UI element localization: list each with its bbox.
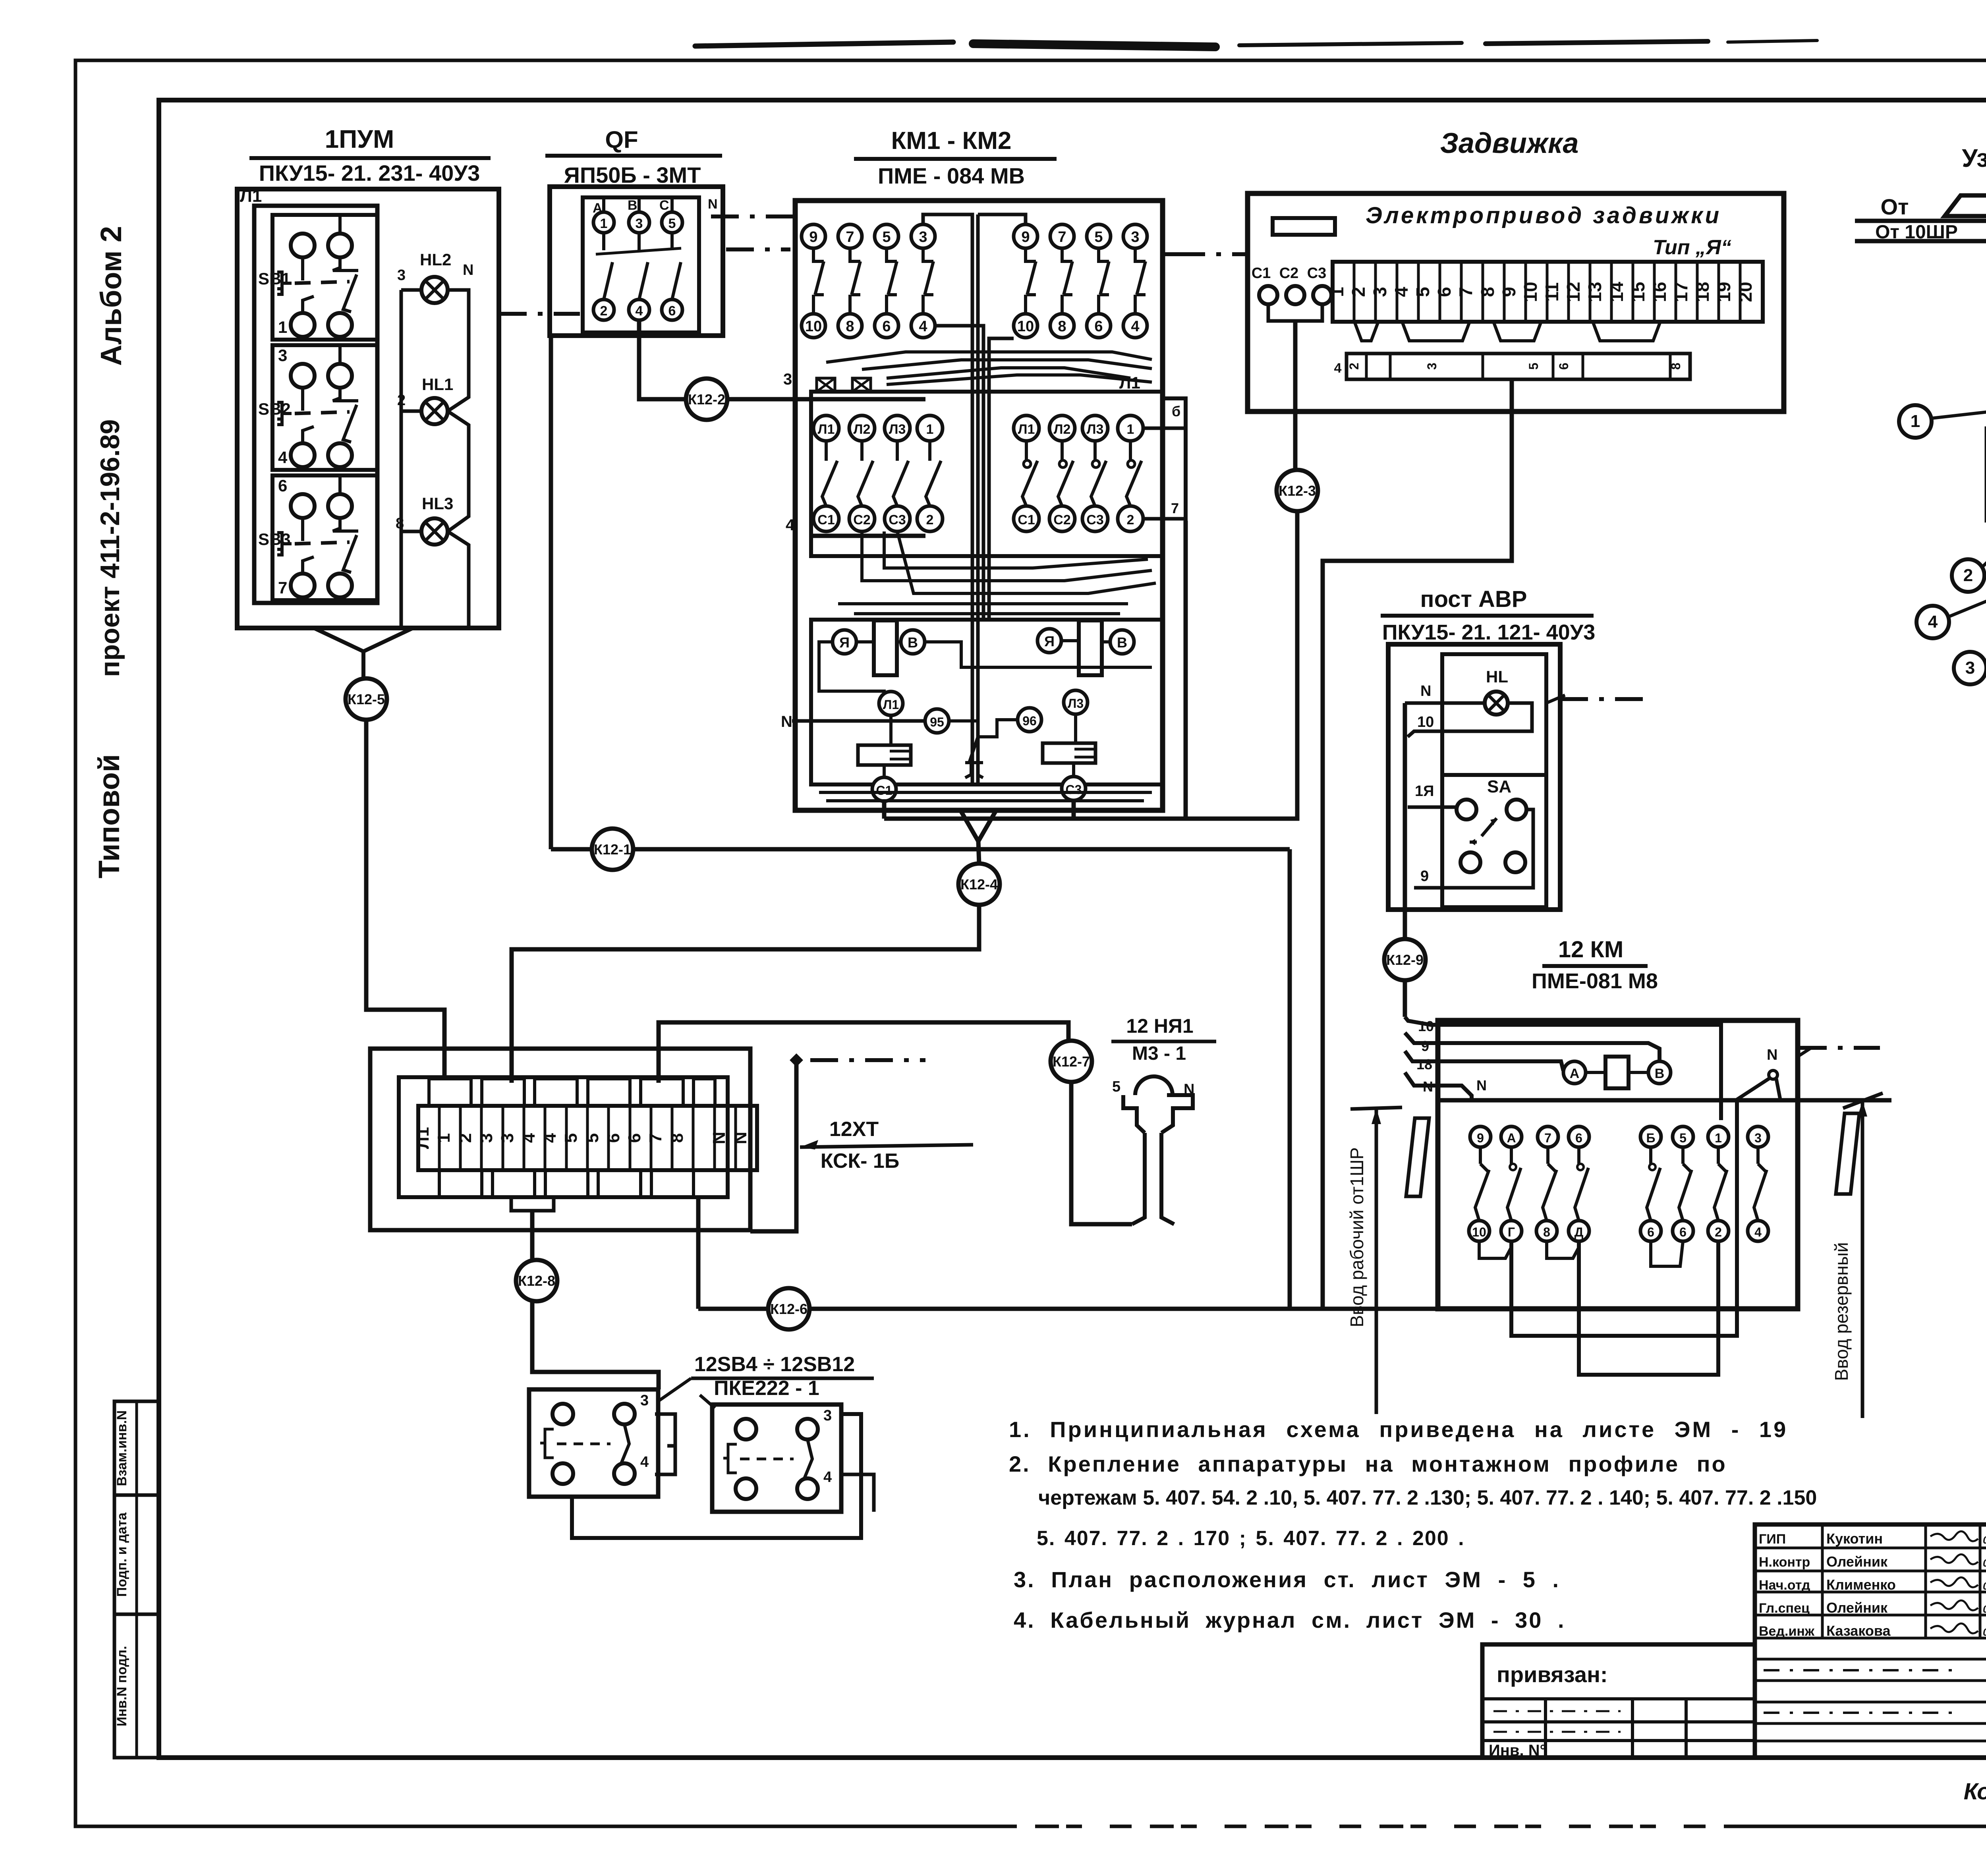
wires around PKE blocks [532,1301,659,1389]
pushbutton block 12SB4-12SB12 right [712,1405,841,1512]
svg-text:2: 2 [456,1133,475,1143]
svg-text:Альбом 2: Альбом 2 [95,226,128,366]
bottom border scan fade [1017,1824,1732,1829]
svg-text:6: 6 [1434,287,1455,297]
svg-text:ПКЕ222 - 1: ПКЕ222 - 1 [714,1377,819,1400]
cable marker K12-4 [958,864,1000,905]
12KM contact 1-2 [1708,1126,1729,1241]
KM1 aux contact 3-4 [911,224,935,338]
svg-text:10: 10 [1017,318,1034,335]
svg-text:9: 9 [809,229,817,245]
svg-text:1: 1 [1127,422,1134,437]
wire K12-4 down then left into strip [512,905,979,1083]
12XT strip cells [413,1106,757,1170]
small window [1273,218,1335,235]
svg-text:привязан:: привязан: [1497,1662,1608,1687]
svg-text:N: N [708,197,718,212]
svg-text:4: 4 [1391,287,1412,297]
svg-text:От: От [1881,194,1909,219]
svg-text:12: 12 [1563,282,1584,302]
svg-text:Олейник: Олейник [1826,1600,1888,1616]
svg-text:КСК- 1Б: КСК- 1Б [821,1150,899,1173]
svg-text:Я: Я [839,634,850,651]
svg-text:4: 4 [540,1133,560,1143]
svg-text:12SB4 ÷ 12SB12: 12SB4 ÷ 12SB12 [694,1353,855,1376]
AVR inner box [1442,654,1546,907]
coil KM1 [833,620,925,675]
svg-text:КМ1 - КМ2: КМ1 - КМ2 [891,127,1011,155]
SA arrows [1482,818,1497,836]
svg-text:3: 3 [919,229,927,245]
svg-text:4: 4 [1928,612,1938,632]
svg-text:2: 2 [1127,512,1134,527]
svg-text:08.89: 08.89 [1983,1580,1986,1592]
line Vvod rezervny [1861,1101,1864,1418]
svg-text:12ХТ: 12ХТ [829,1118,879,1141]
thermal element KM1 [858,745,911,765]
svg-text:В: В [1117,634,1127,651]
svg-text:18: 18 [1692,282,1713,302]
svg-text:Кукотин: Кукотин [1826,1530,1883,1547]
svg-text:б: б [1172,403,1180,419]
svg-text:Гл.спец: Гл.спец [1759,1601,1810,1616]
svg-text:8: 8 [1543,1225,1550,1239]
svg-text:А: А [1507,1131,1516,1145]
svg-text:7: 7 [1058,229,1066,245]
svg-text:4: 4 [786,516,795,534]
svg-text:3: 3 [1425,363,1439,370]
SA wiring [1408,806,1457,809]
12KM contact 5-6 [1673,1126,1693,1241]
svg-text:14: 14 [1606,282,1627,302]
svg-text:С1: С1 [876,783,893,798]
lamp supply rail [401,288,421,292]
svg-text:С1: С1 [1018,512,1035,527]
svg-text:Л1: Л1 [1018,422,1035,437]
svg-text:6: 6 [1557,363,1571,370]
thermal trip symbol [949,721,978,737]
lamp N rail [448,290,469,411]
wire column to motor cable [1184,521,1188,819]
svg-text:96: 96 [1022,714,1037,728]
svg-text:6: 6 [604,1133,623,1143]
terminal strip 1-20 [1327,262,1763,322]
N wire [792,719,925,723]
svg-text:6: 6 [278,476,287,495]
svg-text:9: 9 [1421,1038,1429,1054]
svg-text:HL1: HL1 [422,375,453,394]
dashdot from AVR right [1560,697,1652,701]
12KM contact 6-Д [1569,1126,1589,1241]
thermal element KM2 [1043,743,1095,763]
12KM contact А-Г [1501,1126,1522,1241]
svg-text:Тип „Я“: Тип „Я“ [1653,236,1731,259]
svg-text:Узел пусковой аппаратуры: Узел пусковой аппаратуры [1962,144,1986,172]
svg-text:С2: С2 [853,512,870,527]
V merge to K12-4 [960,810,996,841]
QF inner box [583,197,699,332]
svg-text:С1: С1 [1252,265,1271,282]
wire row 4 [811,534,925,538]
svg-text:2: 2 [1963,566,1973,585]
KM2 aux contact 5-6 [1087,224,1111,338]
cable mark parallelogram 2 [1836,1113,1859,1194]
svg-text:12 КМ: 12 КМ [1558,937,1623,962]
svg-text:95: 95 [930,715,944,729]
svg-text:Нач.отд: Нач.отд [1759,1578,1810,1593]
svg-text:С1: С1 [817,512,835,527]
svg-text:Ввод рабочий от1ШР: Ввод рабочий от1ШР [1347,1147,1367,1327]
svg-text:С3: С3 [1086,512,1103,527]
svg-text:QF: QF [605,126,638,153]
privyazan box [1482,1644,1755,1759]
bundle wires from K12-9 [1405,1017,1721,1120]
svg-text:N: N [1767,1047,1777,1063]
lamp HL3 [396,494,453,545]
dashdot right of 12KM [1799,1046,1880,1050]
svg-text:8: 8 [667,1133,687,1143]
weave wires upper-to-middle [826,352,1152,362]
middle section box [811,392,1163,556]
svg-text:Д: Д [1575,1225,1584,1239]
wire right riser [750,1060,796,1231]
svg-text:2. Крепление аппаратуры на: 2. Крепление аппаратуры на монтажном про… [1009,1451,1727,1476]
svg-text:Клименко: Клименко [1826,1577,1896,1593]
svg-text:20: 20 [1735,282,1756,302]
svg-text:SB2: SB2 [258,400,291,418]
right terminal column [1163,398,1186,521]
lower section box [811,620,1163,784]
svg-text:12 НЯ1: 12 НЯ1 [1126,1015,1193,1037]
svg-text:2: 2 [600,303,608,319]
upper jumper tier [429,1079,471,1106]
scan smudges top edge [695,42,953,46]
svg-text:Л1: Л1 [818,422,835,437]
wire loop below [1579,1241,1718,1375]
leader lines [659,1378,691,1401]
wire down to K12-6 line [1288,849,1292,1309]
svg-text:HL2: HL2 [420,250,451,269]
coil KM2 [1037,620,1134,675]
pushbutton SB3 [258,475,377,600]
HL wiring [1405,701,1485,705]
svg-text:Л1: Л1 [1119,373,1140,392]
dashdot into KM top-left [711,214,795,218]
svg-text:Л1: Л1 [240,186,262,206]
SB assembly box [254,206,377,603]
svg-text:5: 5 [668,216,676,231]
svg-text:Л1: Л1 [413,1127,433,1149]
svg-text:08.89: 08.89 [1983,1557,1986,1569]
svg-text:1: 1 [434,1133,454,1143]
svg-text:М3 - 1: М3 - 1 [1132,1043,1186,1064]
svg-text:6: 6 [1647,1225,1654,1239]
svg-text:1: 1 [926,422,934,437]
svg-text:9: 9 [1021,229,1030,245]
svg-text:ПКУ15- 21. 121- 40У3: ПКУ15- 21. 121- 40У3 [1382,620,1596,644]
KM main contact Л2-С2 [1049,415,1075,531]
svg-text:2: 2 [1347,363,1361,370]
wire QF to K12-2 [639,320,686,399]
lower jumper tier [439,1170,482,1197]
cable marker K12-5 [346,678,387,720]
svg-text:4: 4 [1754,1225,1762,1239]
svg-text:4: 4 [640,1454,649,1470]
wire K12-7 to horn [1071,1082,1132,1224]
pushbutton SB1 [258,215,377,340]
svg-text:7: 7 [1544,1131,1551,1145]
svg-text:10: 10 [1520,282,1541,302]
svg-text:1: 1 [1327,287,1347,297]
svg-text:6: 6 [1679,1225,1687,1239]
svg-text:8: 8 [846,318,854,335]
svg-text:10: 10 [1472,1225,1486,1239]
C terminals [1259,286,1277,304]
KM2 aux contact 3-4 [1123,224,1147,338]
svg-text:С3: С3 [1066,782,1082,797]
svg-text:2: 2 [1348,287,1369,297]
12KM contact 7-8 [1536,1126,1558,1241]
svg-text:17: 17 [1671,282,1691,302]
wire to N pivot leg [1511,1099,1737,1336]
svg-text:Ввод резервный: Ввод резервный [1831,1242,1852,1381]
svg-text:SB1: SB1 [258,269,291,288]
terminals 95 96 [925,709,949,733]
12XT outer box [370,1049,750,1230]
svg-text:Взам.инв.N: Взам.инв.N [114,1410,129,1486]
svg-text:Типовой: Типовой [93,754,126,879]
numbered circles 2 4 3 5 8 6 [1952,559,1984,592]
N rail [1438,1098,1891,1103]
pushbutton SB2 [258,345,377,470]
svg-text:4: 4 [636,303,643,319]
AVR lamp HL [1485,692,1508,715]
svg-text:10: 10 [1417,714,1434,730]
svg-text:4: 4 [278,448,288,467]
svg-text:5: 5 [1679,1131,1687,1145]
KM enclosure [795,201,1163,810]
svg-text:С3: С3 [889,512,906,527]
12XT inner box [399,1077,728,1197]
svg-text:1. Принципиальная схема прив: 1. Принципиальная схема приведена на лис… [1009,1417,1788,1442]
valve enclosure [1248,193,1784,412]
svg-text:4: 4 [519,1133,539,1143]
svg-text:3: 3 [498,1133,517,1143]
svg-text:ПМЕ-081 М8: ПМЕ-081 М8 [1532,969,1658,993]
12KM contact 9-10 [1469,1126,1491,1241]
svg-text:Б: Б [1646,1131,1656,1145]
KM main contact Л1-С1 [1014,415,1039,531]
svg-text:3: 3 [397,267,406,284]
svg-text:пост АВР: пост АВР [1420,586,1527,612]
KM main contact 1-2 [1118,415,1143,531]
svg-text:5: 5 [1412,287,1433,297]
wire strip down right [696,1197,701,1309]
svg-text:HL3: HL3 [422,494,453,513]
svg-text:Н.контр: Н.контр [1759,1555,1810,1570]
terminals C1 C3 [872,777,896,801]
svg-text:7: 7 [1171,500,1179,516]
svg-text:Задвижка: Задвижка [1440,128,1579,159]
dashdot 1PUM-QF [499,312,580,316]
dashdot QF-KM [726,247,790,251]
feeder from 10ShR [1855,194,1986,243]
wire K12-1 to right [633,847,1290,852]
lamp HL2 [397,250,473,303]
svg-text:1: 1 [1715,1131,1722,1145]
horizontal K12-6 run [698,1307,1438,1311]
svg-text:ЯП50Б - 3МТ: ЯП50Б - 3МТ [564,162,701,187]
svg-text:1: 1 [1911,412,1920,431]
svg-text:5: 5 [1094,229,1103,245]
svg-text:5: 5 [1526,363,1541,370]
wire K12-9 down [1403,980,1407,1017]
svg-text:К12-1: К12-1 [594,841,631,858]
cable mark parallelogram [1406,1118,1429,1196]
KM1 aux contact 5-6 [875,224,898,338]
svg-text:ПКУ15- 21. 231- 40У3: ПКУ15- 21. 231- 40У3 [259,160,480,185]
svg-text:8: 8 [1669,363,1683,370]
cable marker K12-9 [1384,939,1426,980]
svg-text:К12-8: К12-8 [518,1273,555,1289]
svg-text:8: 8 [1477,287,1498,297]
interlock marks [817,378,835,392]
svg-text:Инв.N подл.: Инв.N подл. [114,1646,129,1727]
cable marker K12-8 [516,1260,557,1301]
KM main contact Л3-С3 [1082,415,1108,531]
svg-text:чертежам 5. 407. 54. 2 .10, 5.: чертежам 5. 407. 54. 2 .10, 5. 407. 77. … [1038,1486,1817,1509]
svg-text:18: 18 [1416,1056,1432,1072]
svg-text:7: 7 [846,229,854,245]
svg-text:3: 3 [783,371,792,388]
coil A-B [1563,1057,1671,1088]
svg-text:Г: Г [1508,1225,1515,1239]
wire K12-5 down to 12XT [366,720,444,1077]
svg-text:3: 3 [640,1392,649,1409]
svg-text:3: 3 [1131,229,1139,245]
svg-text:С2: С2 [1053,512,1070,527]
KM main contact Л3-С3 [885,415,910,531]
KM2 aux contact 7-8 [1050,224,1074,338]
svg-text:19: 19 [1714,282,1734,302]
coil link wires [925,642,1152,667]
svg-text:1ПУМ: 1ПУМ [325,125,394,153]
svg-text:В: В [628,198,638,213]
QF enclosure drop wire [549,336,553,849]
svg-text:В: В [1655,1066,1665,1081]
small outlet box below [511,1197,554,1211]
AVR enclosure [1388,644,1560,910]
svg-text:4: 4 [823,1469,832,1486]
svg-text:Вед.инж: Вед.инж [1759,1624,1815,1639]
svg-text:2: 2 [926,512,934,527]
svg-text:Электропривод задвижки: Электропривод задвижки [1366,203,1721,228]
svg-text:5: 5 [1112,1078,1121,1095]
svg-text:5: 5 [583,1133,602,1143]
svg-text:К12-9: К12-9 [1386,952,1424,968]
lamp HL1 [397,375,453,424]
svg-text:13: 13 [1584,282,1605,302]
QF linkage bar [596,248,681,254]
QF poles [593,197,614,336]
horn symbol [1123,1076,1193,1224]
svg-text:16: 16 [1649,282,1670,302]
svg-text:8: 8 [1058,318,1066,335]
KM2 aux contact 9-10 [1014,224,1037,338]
cable marker K12-2 [686,379,727,420]
wire strip to K12-8 [530,1211,535,1260]
svg-text:9: 9 [1477,1131,1484,1145]
svg-text:В: В [908,634,918,651]
svg-text:N: N [781,713,792,730]
svg-text:Л3: Л3 [1087,422,1104,437]
svg-text:6: 6 [625,1133,644,1143]
svg-text:Л2: Л2 [854,422,871,437]
signature table [1755,1524,1986,1758]
svg-text:SA: SA [1487,777,1511,796]
wire from strip to K12-7 [659,1022,1068,1083]
svg-text:К12-4: К12-4 [960,876,998,893]
12KM enclosure [1438,1020,1798,1309]
svg-text:Копировал Краснова: Копировал Краснова [1964,1779,1986,1805]
svg-text:3. План расположения ст. лис: 3. План расположения ст. лист ЭМ - 5 . [1014,1567,1560,1592]
KM center bus verticals [923,214,972,782]
wire K12-3 down/left [884,511,1297,819]
svg-text:N: N [709,1132,729,1144]
svg-text:С2: С2 [1279,265,1299,282]
svg-text:С3: С3 [1307,265,1327,282]
KM main contact 1-2 [917,415,943,531]
QF enclosure [550,187,723,336]
KM1 aux contact 7-8 [838,224,862,338]
svg-text:N: N [731,1132,750,1144]
svg-text:9: 9 [1499,287,1519,297]
svg-text:5: 5 [561,1133,581,1143]
svg-text:08.89: 08.89 [1983,1626,1986,1638]
svg-text:С: С [659,198,669,213]
svg-text:Л3: Л3 [889,422,906,437]
12KM contact Б-6 [1640,1126,1661,1241]
left margin stamp boxes [114,1401,159,1758]
cable marker K12-7 [1051,1041,1092,1082]
svg-text:N: N [1476,1077,1487,1094]
svg-text:Подп. и дата: Подп. и дата [114,1512,129,1597]
svg-text:6: 6 [1094,318,1103,335]
svg-text:Казакова: Казакова [1826,1623,1891,1639]
svg-text:4: 4 [1334,361,1342,376]
svg-text:ГИП: ГИП [1759,1532,1786,1547]
numbered circles 1 9 [1899,405,1932,438]
svg-text:11: 11 [1542,282,1562,302]
svg-text:6: 6 [1575,1131,1582,1145]
svg-text:Я: Я [1044,633,1055,649]
svg-text:6: 6 [882,318,891,335]
svg-text:08.89: 08.89 [1983,1603,1986,1615]
terminals L1 L3 [879,692,903,715]
svg-text:SB3: SB3 [258,530,291,549]
1ПУМ enclosure [237,189,499,628]
svg-text:1: 1 [600,216,608,231]
wire C2 down to K12-3 [1293,321,1298,470]
svg-text:А: А [1570,1066,1580,1081]
svg-text:HL: HL [1486,667,1508,686]
dashdot valve to KM [1177,252,1248,256]
line Vvod rabochiy [1375,1108,1378,1414]
svg-text:5: 5 [882,229,891,245]
svg-text:7: 7 [1455,287,1476,297]
cable marker K12-3 [1277,470,1318,511]
svg-text:К12-5: К12-5 [348,691,385,707]
